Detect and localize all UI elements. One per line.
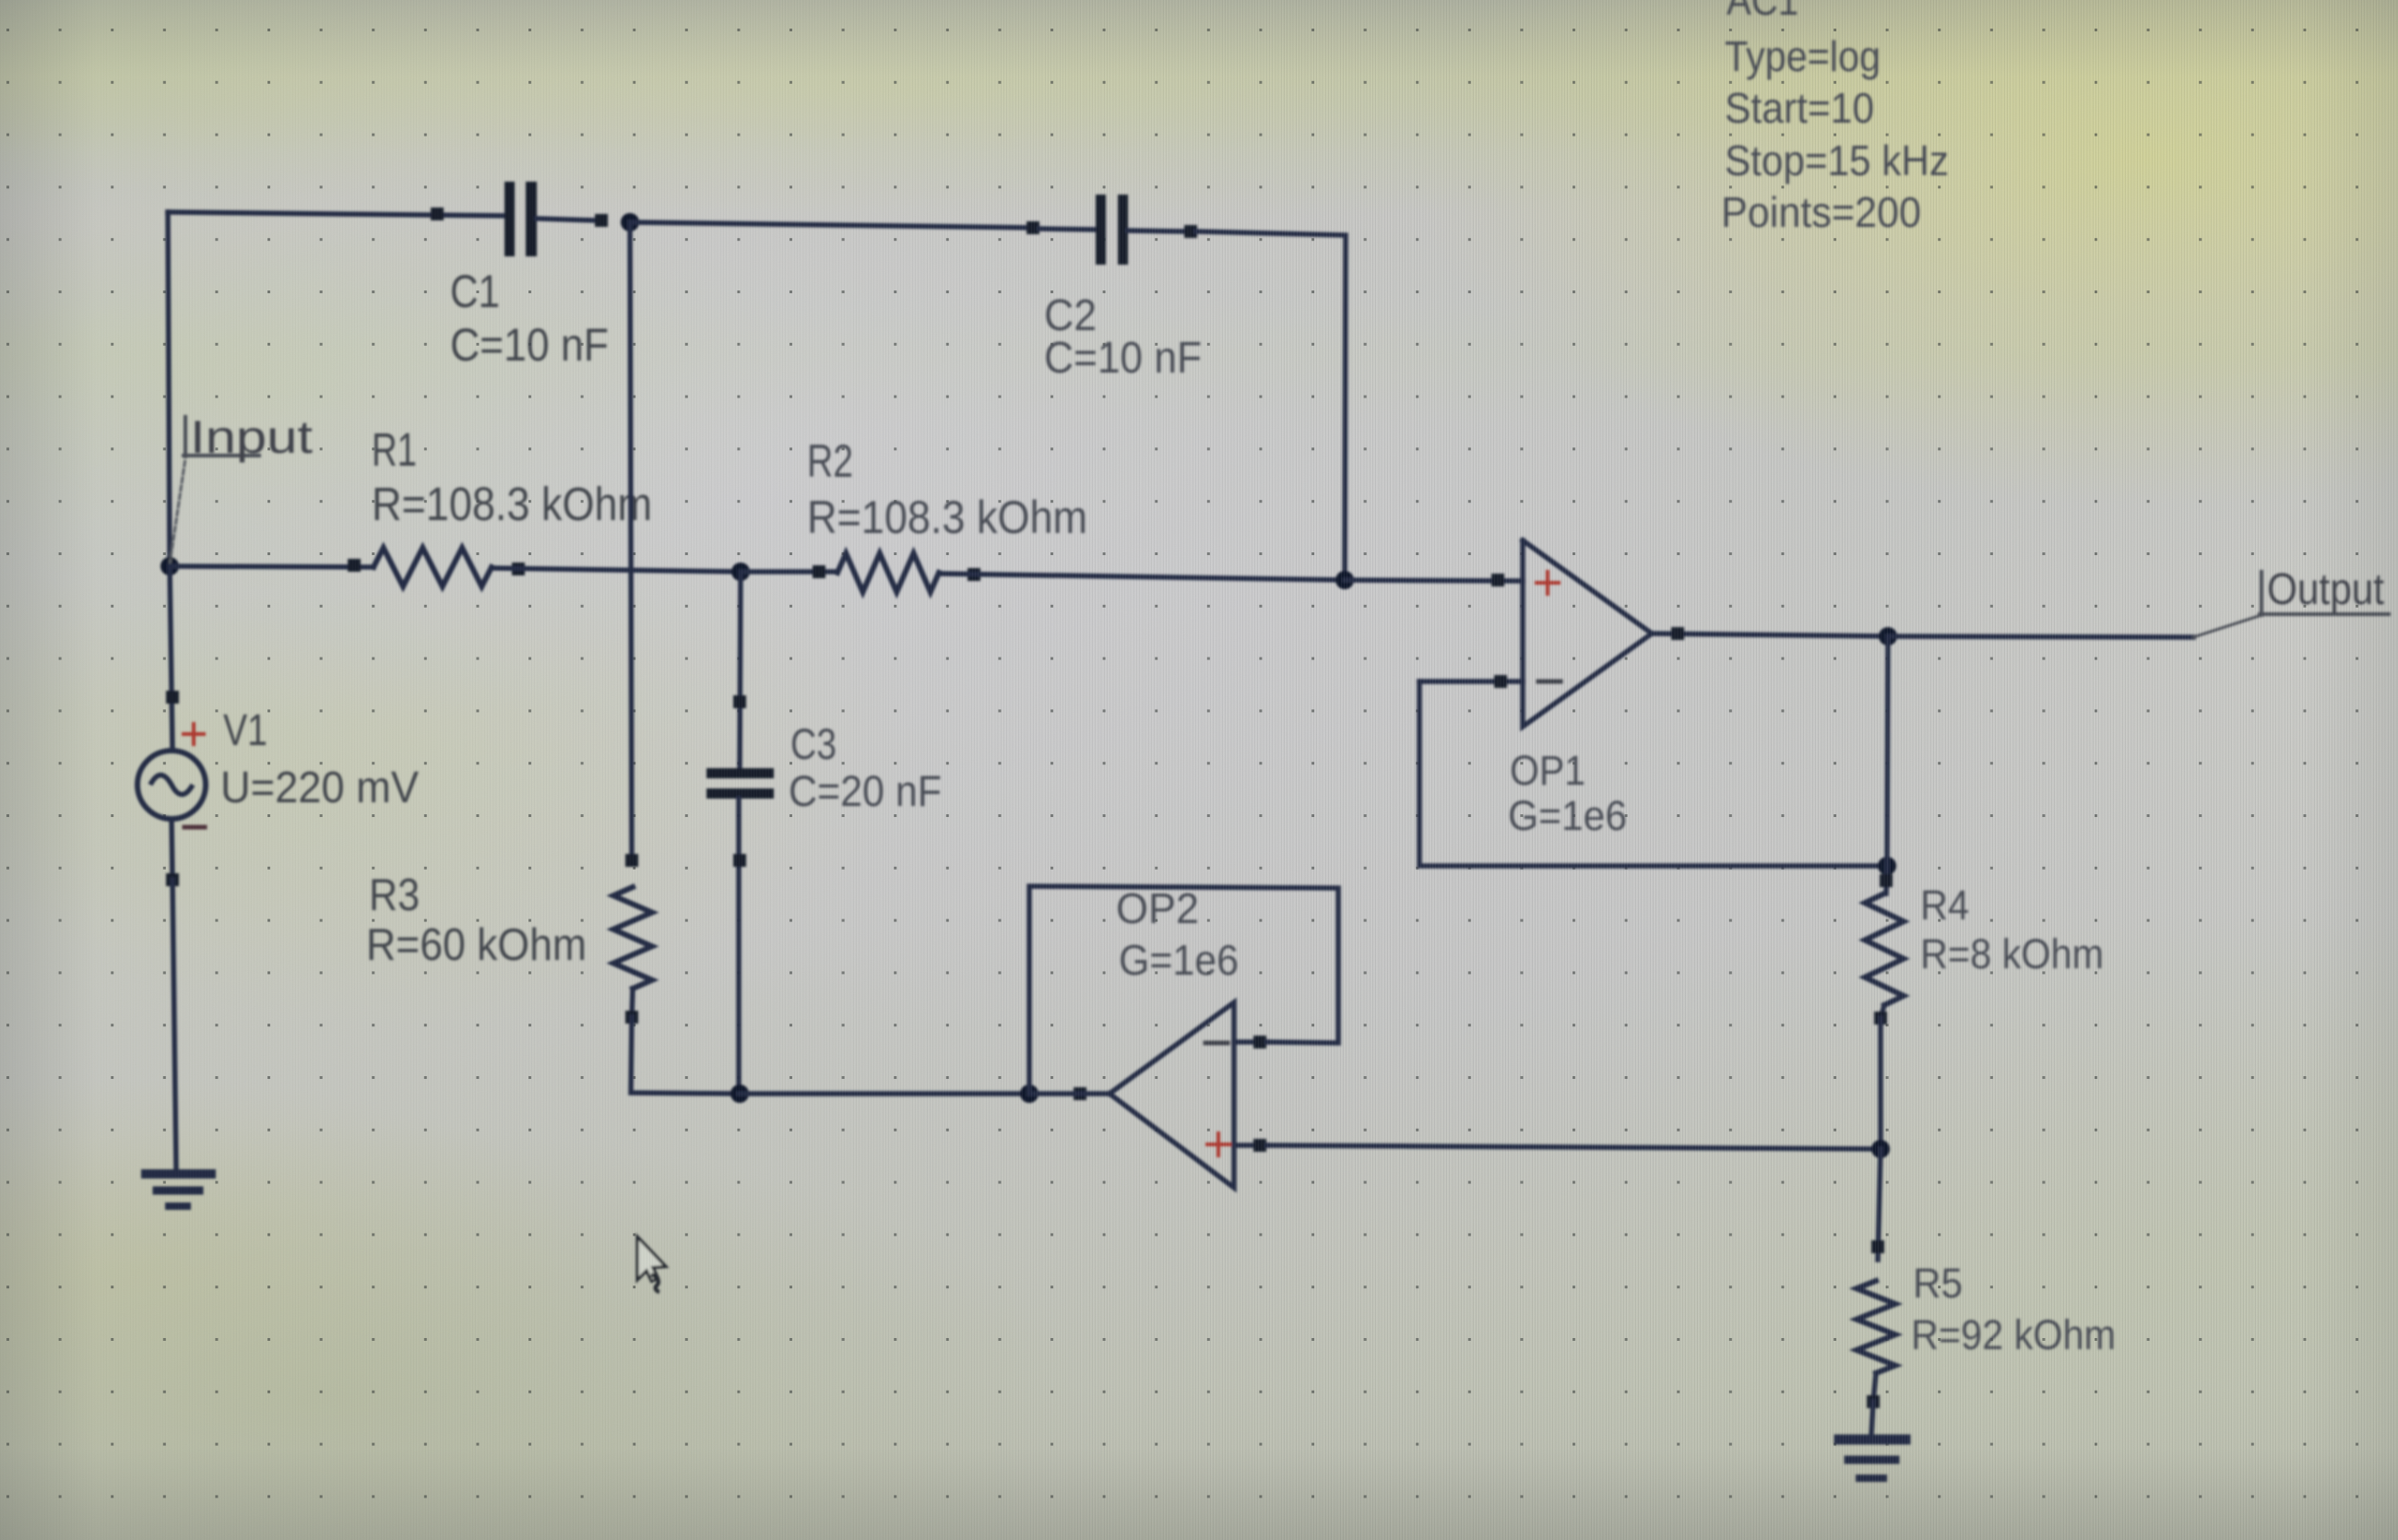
mouse cursor <box>637 1237 666 1292</box>
node input (main rail left) <box>160 557 179 575</box>
wire OP2 feedback loop <box>1029 886 1338 1094</box>
wire OP1 output <box>1652 634 1888 636</box>
resistor R3 (vertical, from C1/C2 node) <box>630 222 632 860</box>
wire C2 to right corner, down to main rail <box>1196 231 1346 580</box>
label Input <box>170 458 185 564</box>
ground (below V1) <box>146 1169 211 1179</box>
node C1-C2 junction <box>621 213 639 231</box>
resistor R2 <box>837 553 939 592</box>
op-amp OP2 (mirrored, output to left) <box>1110 1002 1234 1188</box>
label Output <box>1888 636 2193 637</box>
node OP2 output junction <box>1020 1084 1039 1103</box>
wire bottom rail to OP2 output <box>739 1091 1029 1096</box>
wire top-left rail <box>168 212 506 216</box>
node output junction <box>1879 627 1897 646</box>
resistor R4 <box>1886 866 1887 894</box>
node C3-R3 bottom junction <box>730 1084 749 1103</box>
ground (below R5) <box>1839 1435 1905 1445</box>
wire to OP1 + input <box>1345 580 1523 581</box>
capacitor C3 <box>740 572 741 768</box>
wire left rail <box>168 212 170 566</box>
node R2-C2-OP1 junction <box>1336 571 1354 589</box>
resistor R1 <box>374 548 492 586</box>
node R1-R2 / C3 junction <box>731 563 750 581</box>
voltage source V1 <box>170 566 172 751</box>
wire to R2 <box>741 569 837 575</box>
resistor R5 <box>1878 1149 1881 1260</box>
wire OP1 feedback loop <box>1419 681 1887 866</box>
node R4-R5-OP2+ junction <box>1871 1140 1890 1158</box>
wire C1 to C2 <box>630 222 1033 228</box>
wire OP2 + input to R4/R5 node <box>1267 1145 1881 1149</box>
wire main rail to R1 <box>170 566 374 567</box>
op-amp OP1 <box>1523 540 1652 727</box>
node feedback/R4 junction <box>1878 857 1896 875</box>
capacitor C2 <box>1027 221 1039 234</box>
capacitor C1 <box>431 207 444 220</box>
